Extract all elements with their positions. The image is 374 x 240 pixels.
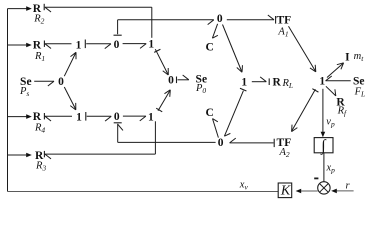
svg-text:1: 1 — [148, 112, 154, 124]
label vp — [326, 117, 335, 129]
svg-text:0: 0 — [217, 13, 223, 25]
svg-text:I: I — [345, 51, 350, 63]
signal arrow modulating R2 — [8, 6, 32, 11]
bond 1c to R4 — [44, 113, 72, 121]
svg-text:C: C — [205, 107, 213, 119]
wire feedback path left vertical — [7, 9, 9, 192]
bond 0p to Se P0 — [177, 75, 189, 83]
bond 1b to R2 — [44, 4, 152, 38]
bond 1a to R1 — [44, 41, 71, 49]
signal integrator to summer — [323, 153, 325, 182]
label xp — [326, 163, 336, 175]
junction 1b — [148, 39, 154, 51]
svg-text:1: 1 — [319, 76, 325, 88]
resistor R RL — [273, 77, 294, 91]
junction 0d — [218, 137, 224, 149]
svg-text:1: 1 — [76, 39, 82, 51]
transformer TF A1 — [276, 14, 291, 38]
bond 1p to Rf — [326, 86, 336, 96]
bond TF1 to 1p — [289, 26, 316, 72]
bond 1p to I — [327, 63, 344, 78]
signal arrow modulating R3 — [8, 153, 32, 158]
signal arrow modulating R4 — [8, 114, 32, 119]
bond 0c to 1m — [223, 25, 243, 73]
bond 1m to 0d — [224, 88, 246, 136]
junction 0s — [58, 76, 64, 88]
signal vp 1p to integrator — [321, 89, 326, 138]
junction 0a — [114, 39, 120, 51]
bond 0c to TF1 — [227, 15, 276, 24]
svg-text:0: 0 — [58, 76, 64, 88]
resistor R R4 — [33, 111, 46, 134]
bond 1d to R3 — [44, 121, 155, 159]
bond 0d to C2 — [213, 119, 219, 138]
junction 0c — [217, 13, 223, 25]
junction 1a — [76, 39, 82, 51]
junction 1c — [76, 111, 82, 123]
svg-text:1: 1 — [76, 111, 82, 123]
svg-text:R: R — [33, 39, 42, 51]
svg-text:K: K — [280, 184, 291, 199]
svg-text:1: 1 — [241, 77, 247, 89]
label r — [345, 181, 350, 192]
source Se P0 — [195, 74, 207, 95]
bond 0s to 1a — [64, 52, 76, 76]
resistor R R3 — [35, 150, 46, 173]
signal summer to K — [296, 189, 318, 194]
resistor R R1 — [33, 39, 45, 63]
wire feedback path bottom horizontal — [8, 191, 279, 193]
bond 0d to 0b — [114, 123, 216, 143]
bond 1p to TF2 — [292, 89, 319, 132]
bond TF2 to 0d — [230, 138, 275, 147]
bond 1m to RL — [252, 77, 269, 85]
bond 1d to 0p — [156, 90, 170, 112]
label xv — [239, 180, 249, 192]
inertia I mt — [345, 51, 364, 63]
bond 0a to 1b — [123, 44, 147, 49]
bond 1c to 0b — [86, 112, 111, 121]
bond 1b to 0p — [154, 49, 168, 75]
bond Se to 0s — [34, 81, 54, 86]
svg-text:TF: TF — [276, 14, 291, 26]
svg-text:C: C — [205, 41, 213, 53]
integrator box — [314, 138, 333, 156]
junction 0p — [168, 74, 174, 86]
bond 0s to 1c — [64, 87, 76, 110]
junction 1m — [241, 77, 247, 89]
junction 1d — [148, 112, 154, 124]
signal r input — [331, 189, 353, 194]
junction 0b — [114, 111, 120, 123]
svg-text:0: 0 — [114, 111, 120, 123]
resistor R R2 — [33, 3, 45, 26]
transformer TF A2 — [277, 137, 292, 159]
capacitor C chamber 2 — [205, 107, 213, 119]
bond 0a to 0c — [114, 20, 214, 35]
bond 0b to 1d — [123, 116, 146, 121]
source Se Ps — [19, 76, 32, 98]
svg-text:R: R — [273, 77, 282, 89]
bond 1a to 0a — [85, 40, 111, 49]
gain K box — [278, 183, 292, 199]
resistor R Rf — [336, 97, 347, 118]
summer circle — [318, 182, 330, 194]
junction 1p — [319, 76, 325, 88]
svg-text:0: 0 — [218, 137, 224, 149]
svg-text:1: 1 — [148, 39, 154, 51]
svg-text:0: 0 — [114, 39, 120, 51]
bond 0c to C1 — [212, 24, 217, 38]
source Se FL — [353, 76, 365, 99]
minus sign — [314, 177, 318, 179]
svg-text:0: 0 — [168, 74, 174, 86]
bond Se FL to 1p — [326, 76, 351, 81]
capacitor C chamber 1 — [205, 41, 213, 53]
signal arrow modulating R1 — [8, 43, 32, 48]
